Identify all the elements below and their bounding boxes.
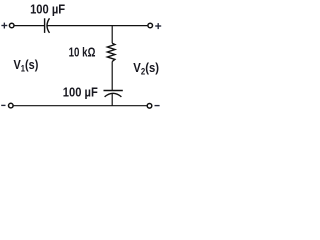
minus sign at output bottom terminal xyxy=(155,105,160,107)
wire from capacitor C2 to bottom rail xyxy=(111,94,113,106)
capacitor C1 curved plate xyxy=(47,18,50,33)
input bottom terminal circle xyxy=(9,103,14,108)
bottom rail wire xyxy=(13,105,147,107)
svg-text:V1(s): V1(s) xyxy=(14,57,39,74)
wire from resistor R1 to capacitor C2 xyxy=(111,62,113,91)
input top terminal circle xyxy=(9,23,14,28)
top wire from capacitor C1 to output terminal xyxy=(47,25,147,27)
capacitor C1 straight plate xyxy=(44,18,46,33)
output bottom terminal circle xyxy=(147,104,152,109)
svg-text:V2(s): V2(s) xyxy=(133,60,159,76)
resistor R1 zigzag xyxy=(107,43,115,61)
svg-text:100 µF: 100 µF xyxy=(30,2,65,17)
capacitor C2 straight plate xyxy=(104,90,123,92)
node V2: output voltage label V2(s) xyxy=(133,60,159,76)
plus sign at input top terminal xyxy=(1,23,7,29)
node V1: input voltage label V1(s) xyxy=(14,57,39,74)
plus sign at output top terminal xyxy=(155,23,161,29)
minus sign at input bottom terminal xyxy=(1,104,5,106)
resistor R1 value label 10kOhm xyxy=(69,46,96,60)
capacitor C2 value label 100uF xyxy=(63,85,98,100)
wire from input terminal to capacitor C1 xyxy=(14,25,44,27)
capacitor C1 value label 100uF xyxy=(30,2,65,17)
svg-text:100 µF: 100 µF xyxy=(63,85,98,100)
output top terminal circle xyxy=(148,23,153,28)
wire from top rail down to resistor R1 xyxy=(111,26,113,44)
svg-text:10 kΩ: 10 kΩ xyxy=(69,46,96,60)
capacitor C2 curved plate xyxy=(105,93,122,97)
